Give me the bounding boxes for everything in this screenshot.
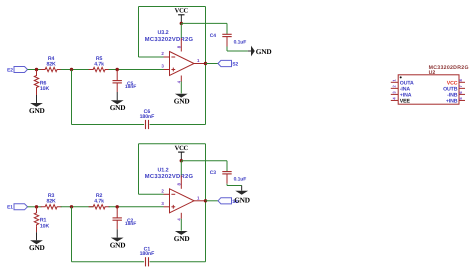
pin 1 output stub — [194, 63, 206, 65]
wire — [61, 69, 94, 71]
wire — [139, 143, 206, 145]
wire — [227, 50, 248, 52]
svg-text:GND: GND — [29, 106, 45, 115]
svg-text:4: 4 — [176, 218, 181, 221]
junction — [180, 22, 183, 25]
svg-text:+INB: +INB — [446, 98, 458, 104]
svg-text:1: 1 — [392, 79, 397, 82]
ground — [248, 46, 272, 57]
svg-text:10K: 10K — [40, 224, 50, 230]
ground — [110, 92, 126, 112]
op-amp U3.2 — [145, 30, 194, 76]
pin 1 OUTA — [391, 79, 414, 87]
port E2 — [7, 67, 27, 74]
wire — [139, 56, 164, 58]
svg-text:18nF: 18nF — [125, 221, 136, 227]
svg-text:82K: 82K — [46, 61, 56, 67]
wire — [226, 184, 228, 186]
svg-text:S2: S2 — [232, 62, 238, 68]
capacitor C4 — [222, 34, 231, 36]
junction — [70, 68, 73, 71]
svg-text:U1.2: U1.2 — [158, 167, 169, 173]
resistor R5 — [89, 56, 110, 72]
svg-text:4.7k: 4.7k — [94, 61, 104, 67]
svg-text:2: 2 — [392, 85, 397, 88]
resistor R4 — [41, 56, 62, 72]
wire — [226, 161, 228, 172]
pin 2 stub — [164, 193, 170, 195]
svg-text:VCC: VCC — [175, 145, 189, 152]
junction — [70, 205, 73, 208]
ground stem — [241, 186, 243, 191]
wire — [180, 23, 182, 38]
wire — [28, 69, 42, 71]
junction — [35, 205, 38, 208]
wire — [180, 219, 182, 231]
wire — [150, 124, 206, 126]
junction — [204, 199, 207, 202]
wire — [181, 22, 227, 24]
svg-text:4.7k: 4.7k — [94, 199, 104, 205]
wire — [72, 261, 145, 263]
wire — [206, 200, 219, 202]
svg-text:4: 4 — [392, 97, 397, 100]
pin 4 VEE — [391, 97, 411, 105]
wire — [181, 160, 227, 162]
wire — [180, 161, 182, 176]
VCC power port — [175, 8, 189, 24]
R1 branch stub — [36, 207, 38, 213]
svg-text:E2: E2 — [7, 67, 13, 73]
wire — [28, 206, 42, 208]
pin 7 OUTB — [443, 85, 465, 93]
pin 5 +INB — [446, 97, 465, 105]
svg-text:GND: GND — [174, 234, 190, 243]
ground — [29, 232, 45, 252]
R6 branch stub — [36, 70, 38, 76]
svg-text:GND: GND — [110, 241, 126, 250]
wire — [139, 6, 206, 8]
resistor R1 — [34, 211, 49, 230]
svg-text:10K: 10K — [40, 86, 50, 92]
ground — [174, 231, 190, 243]
junction — [35, 68, 38, 71]
junction — [204, 62, 207, 65]
wire — [205, 7, 207, 125]
junction — [180, 159, 183, 162]
svg-text:180nF: 180nF — [140, 251, 155, 257]
port E1 — [7, 204, 27, 211]
svg-text:2: 2 — [161, 51, 164, 56]
svg-text:VEE: VEE — [400, 98, 411, 104]
svg-text:U3.2: U3.2 — [158, 30, 169, 36]
pin 8 stub — [180, 175, 182, 189]
ground — [110, 229, 126, 249]
svg-text:18nF: 18nF — [125, 84, 136, 90]
pin 2 -INA — [391, 85, 411, 93]
junction — [116, 68, 119, 71]
wire — [71, 207, 73, 262]
C2 branch stub — [116, 207, 118, 218]
svg-text:MC33202VDR2G: MC33202VDR2G — [145, 173, 194, 180]
svg-text:E1: E1 — [7, 205, 13, 211]
svg-text:GND: GND — [29, 243, 45, 252]
wire — [72, 124, 145, 126]
svg-text:GND: GND — [110, 103, 126, 112]
IC U2 MC33202DR2G — [398, 65, 469, 104]
pin 4 stub — [180, 76, 182, 82]
wire — [150, 261, 206, 263]
wire — [226, 23, 228, 34]
VCC power port — [175, 145, 189, 161]
svg-text:VCC: VCC — [175, 8, 189, 15]
wire — [205, 144, 207, 262]
svg-text:82K: 82K — [46, 199, 56, 205]
junction — [116, 205, 119, 208]
svg-text:8: 8 — [176, 183, 181, 186]
svg-text:GND: GND — [256, 47, 272, 56]
pin 4 stub — [180, 213, 182, 219]
wire — [139, 193, 164, 195]
resistor R3 — [41, 193, 62, 209]
capacitor C1 — [140, 246, 155, 266]
op-amp U1.2 — [145, 167, 194, 213]
ground — [174, 94, 190, 106]
port S2 — [218, 60, 238, 67]
svg-text:U2: U2 — [429, 70, 436, 76]
C4 bottom stub — [226, 37, 228, 47]
svg-text:C4: C4 — [210, 33, 217, 39]
svg-text:MC33202VDR2G: MC33202VDR2G — [145, 36, 194, 43]
capacitor C3 — [222, 172, 231, 174]
svg-text:0.1uF: 0.1uF — [234, 177, 247, 183]
wire — [226, 47, 228, 52]
ground — [234, 191, 250, 205]
svg-text:3: 3 — [161, 64, 164, 69]
svg-text:0.1uF: 0.1uF — [234, 39, 247, 45]
resistor R6 — [34, 74, 49, 93]
svg-text:1: 1 — [197, 58, 200, 63]
svg-text:C3: C3 — [210, 170, 217, 176]
svg-text:8: 8 — [176, 45, 181, 48]
svg-text:2: 2 — [161, 189, 164, 194]
wire — [227, 185, 242, 187]
pin 3 stub — [164, 69, 170, 71]
wire — [71, 70, 73, 125]
pin 8 VCC — [447, 79, 465, 87]
wire — [206, 63, 219, 65]
svg-text:1: 1 — [197, 195, 200, 200]
pin 3 +INA — [391, 91, 412, 99]
pin 8 stub — [180, 38, 182, 52]
capacitor C5 — [113, 81, 137, 90]
svg-text:3: 3 — [161, 201, 164, 206]
svg-text:GND: GND — [174, 97, 190, 106]
svg-text:GND: GND — [234, 196, 250, 205]
wire — [138, 144, 140, 195]
ground — [29, 95, 45, 115]
C5 branch stub — [116, 70, 118, 81]
wire — [61, 206, 94, 208]
pin 2 stub — [164, 56, 170, 58]
pin 1 output stub — [194, 200, 206, 202]
wire — [180, 82, 182, 94]
svg-text:3: 3 — [392, 91, 397, 94]
wire — [138, 7, 140, 58]
C3 bottom stub — [226, 174, 228, 184]
wire — [109, 69, 164, 71]
pin 3 stub — [164, 206, 170, 208]
svg-text:4: 4 — [176, 80, 181, 83]
resistor R2 — [89, 193, 110, 209]
wire — [109, 206, 164, 208]
svg-text:180nF: 180nF — [140, 114, 155, 120]
port S1 — [218, 198, 238, 205]
capacitor C2 — [113, 218, 137, 227]
capacitor C6 — [140, 109, 155, 129]
pin 6 -INB — [447, 91, 465, 99]
